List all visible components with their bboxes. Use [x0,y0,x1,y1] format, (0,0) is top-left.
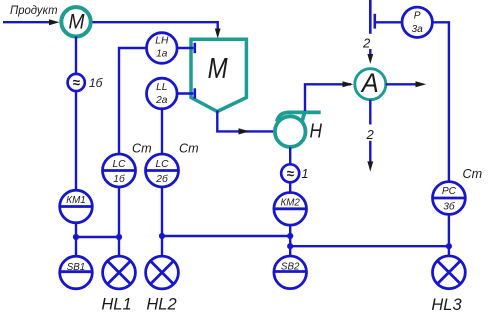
analyzer A [355,68,386,100]
svg-text:2б: 2б [155,173,169,185]
level sensor LL 2а [147,78,178,109]
contactor KM1 [60,190,93,223]
pressure sensor P 3а [402,7,432,37]
arrow A output [416,81,427,87]
svg-text:КМ2: КМ2 [281,198,301,209]
svg-text:M: M [208,53,229,85]
svg-text:3б: 3б [443,200,456,212]
wire pump outlet riser to A [305,84,351,111]
probe stub pipe (net 2) [369,0,372,34]
wire P to PC column [433,22,449,181]
wire LC1б down to HL1 [118,187,120,256]
wire PC down to junction [448,215,450,247]
junction HL1 column [116,234,122,240]
svg-text:1б: 1б [89,76,104,90]
svg-text:Ст: Ст [179,141,199,155]
mixer motor M [61,7,90,36]
speed sensor ≈ 1б [68,74,85,91]
wire KM1 to junction [75,223,77,237]
pressure controller PC 3б [433,182,466,215]
svg-text:1б: 1б [113,173,126,185]
pump Н [275,112,323,147]
level probe high [177,43,195,53]
probe plate [373,14,376,29]
contactor KM2 [274,193,307,226]
wire feed line [3,21,52,23]
junction HL2 column [159,233,165,239]
level sensor LH 1а [147,33,178,64]
wire HL2 junction to KM2 column [162,235,290,237]
wire pump down to sensor 1 [289,147,291,164]
svg-text:2: 2 [366,127,375,142]
button SB2 [274,256,307,289]
arrow into mixer M [49,19,60,25]
svg-text:SB2: SB2 [281,262,300,273]
wire junction to HL3 [448,246,450,256]
svg-text:HL3: HL3 [431,296,462,314]
svg-text:КМ1: КМ1 [66,195,85,206]
svg-text:1а: 1а [156,49,168,60]
svg-text:LC: LC [155,159,169,170]
arrow vent down [367,161,373,171]
svg-text:2а: 2а [155,95,168,106]
wire LC2б down to HL2 [161,187,163,256]
wire KM2 to HL3 junction [290,245,449,247]
wire mixer down to speed sensor 1б [75,37,77,74]
arrow into tank [215,29,221,39]
junction KM2 upper [287,233,293,239]
svg-text:LH: LH [155,36,169,47]
lamp HL2 [146,256,179,289]
level controller LC 2б [146,154,179,187]
svg-text:Ст: Ст [463,167,483,181]
svg-text:PC: PC [442,186,457,197]
svg-text:≈: ≈ [286,166,294,181]
junction HL3 column [446,243,452,249]
tank M [191,39,246,111]
speed sensor ≈ 1 [281,164,299,182]
svg-text:P: P [414,11,421,22]
level probe low [177,88,195,98]
wire sensor 1б to KM1 [75,92,77,191]
wire sensor 1 to KM2 [289,183,291,193]
svg-text:Ст: Ст [132,141,152,155]
svg-text:M: M [69,11,85,34]
wire junction to SB1 [75,237,77,256]
svg-text:SB1: SB1 [67,262,86,273]
wire KM2 down to SB2 [289,225,291,256]
svg-text:LL: LL [156,82,167,93]
svg-text:HL1: HL1 [101,296,131,314]
svg-text:3а: 3а [412,24,424,35]
wire vent lower with arrow [369,141,371,165]
button SB1 [60,256,93,289]
svg-text:LC: LC [112,159,126,170]
flow arrow to pump [239,128,250,134]
lamp HL1 [103,256,136,289]
wire LL to LC2б [161,109,163,154]
svg-text:2: 2 [362,35,371,50]
svg-text:А: А [360,68,379,98]
wire mixer to tank [93,22,218,31]
svg-text:Н: Н [310,120,323,142]
arrow into analyzer A [343,81,354,87]
wire tank outlet to pump [217,111,274,132]
svg-text:HL2: HL2 [146,296,176,314]
arrow down into A [367,54,373,64]
svg-text:1: 1 [302,167,309,181]
wire LH to LC1б column [119,48,147,154]
wire 2 into A [369,49,371,58]
junction KM1 column [73,234,79,240]
junction KM2 lower [287,243,293,249]
level controller LC 1б [103,154,136,187]
svg-text:≈: ≈ [72,75,80,90]
svg-text:Продукт: Продукт [10,3,58,17]
wire KM1 junction to HL1 junction [76,236,119,238]
wire A bottom vent [369,100,371,125]
lamp HL3 [433,256,466,289]
wire probe to P [375,21,401,23]
wire A output [386,83,419,85]
